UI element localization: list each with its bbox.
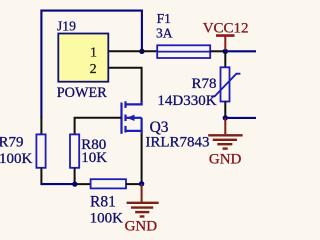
- wire: pin1 to fuse: [109, 50, 159, 52]
- wire: R80 bottom stub: [74, 168, 76, 184]
- wire: fuse to VCC node: [210, 50, 224, 52]
- wire: R78 node to right edge: [225, 117, 256, 119]
- svg-text:F1: F1: [157, 11, 171, 26]
- varistor R78: [157, 52, 240, 116]
- svg-text:R79: R79: [0, 135, 24, 151]
- wire: gate wire to R80: [75, 118, 122, 135]
- ground: left GND: [125, 184, 159, 235]
- wire: bottom navy segment: [41, 183, 75, 185]
- svg-text:100K: 100K: [90, 211, 124, 227]
- svg-text:POWER: POWER: [57, 85, 108, 101]
- svg-text:GND: GND: [209, 151, 242, 167]
- wire: R79 bottom stub: [40, 168, 42, 185]
- node: source/R81/GND junction: [139, 181, 144, 186]
- node: R78 bottom junction: [223, 115, 228, 120]
- wire: top loop from R79 top to fuse node: [41, 11, 141, 118]
- resistor R79: [0, 134, 46, 167]
- node: junction pin1/fuse: [139, 49, 144, 54]
- svg-text:J19: J19: [57, 18, 76, 33]
- svg-text:IRLR7843: IRLR7843: [145, 135, 209, 151]
- wire: Q3 source down: [141, 134, 143, 183]
- wire: black segment above R79: [40, 117, 42, 135]
- resistor R81: [90, 179, 126, 227]
- wire: VCC node to right edge: [225, 50, 256, 52]
- svg-text:100K: 100K: [0, 151, 33, 167]
- svg-text:2: 2: [90, 62, 97, 77]
- node: R80/R81 junction: [72, 181, 77, 186]
- svg-text:10K: 10K: [81, 150, 107, 166]
- fuse F1: [156, 11, 210, 58]
- wire: R81 to source node: [126, 183, 142, 185]
- svg-text:14D330K: 14D330K: [157, 93, 216, 109]
- power VCC12: [203, 20, 249, 50]
- svg-text:3A: 3A: [156, 25, 173, 40]
- svg-text:R81: R81: [90, 193, 116, 210]
- connector J19: [57, 18, 109, 101]
- svg-text:VCC12: VCC12: [203, 20, 249, 36]
- ground: right GND: [208, 118, 242, 167]
- svg-text:GND: GND: [125, 219, 158, 235]
- node: VCC12 junction: [223, 49, 228, 54]
- wire: junction to R81: [75, 183, 91, 185]
- resistor R80: [70, 134, 107, 167]
- transistor Q3: [122, 101, 210, 151]
- wire: pin2 to Q3 drain: [109, 68, 142, 102]
- svg-text:R78: R78: [192, 76, 217, 92]
- svg-text:1: 1: [90, 46, 97, 61]
